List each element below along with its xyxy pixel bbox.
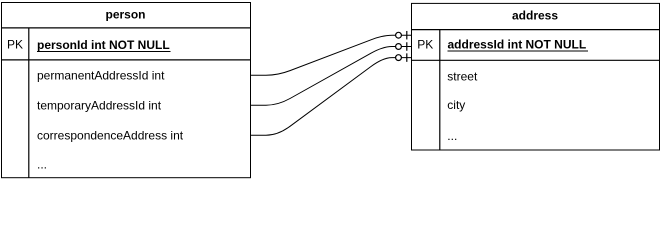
svg-text:city: city (447, 98, 465, 112)
svg-text:permanentAddressId int: permanentAddressId int (37, 69, 165, 83)
wire temporaryAddressId to address (251, 47, 412, 106)
entity person: PK row divider (1, 59, 251, 61)
svg-text:PK: PK (7, 38, 23, 52)
entity person: outer frame (2, 3, 251, 178)
entity address: PK row divider (411, 59, 660, 61)
svg-text:personId int NOT NULL: personId int NOT NULL (37, 38, 170, 52)
svg-text:...: ... (37, 157, 47, 171)
entity address: outer frame (412, 3, 660, 150)
svg-text:street: street (447, 69, 478, 83)
marker zero-or-one circle, wire 2 (396, 44, 402, 50)
marker zero-or-one circle, wire 3 (396, 55, 402, 61)
marker zero-or-one tick, wire 3 (406, 53, 408, 62)
entity address: PK column divider (439, 30, 441, 150)
entity address: header divider (411, 29, 660, 31)
wire permanentAddressId to address (251, 35, 412, 75)
entity person: key attribute personId int NOT NULL (37, 38, 171, 52)
svg-text:...: ... (447, 129, 457, 143)
marker zero-or-one tick, wire 2 (406, 42, 408, 51)
entity person: PK column divider (28, 28, 30, 178)
svg-text:address: address (512, 9, 558, 23)
wire correspondenceAddress to address (251, 58, 412, 136)
svg-text:addressId int NOT NULL: addressId int NOT NULL (448, 38, 587, 52)
svg-text:PK: PK (417, 38, 433, 52)
entity person: header divider (1, 27, 251, 29)
entity address: key attribute addressId int NOT NULL (448, 38, 589, 52)
marker zero-or-one tick, wire 1 (406, 31, 408, 40)
svg-text:correspondenceAddress int: correspondenceAddress int (37, 129, 184, 143)
svg-text:person: person (105, 7, 145, 21)
marker zero-or-one circle, wire 1 (396, 32, 402, 38)
svg-text:temporaryAddressId int: temporaryAddressId int (37, 99, 162, 113)
